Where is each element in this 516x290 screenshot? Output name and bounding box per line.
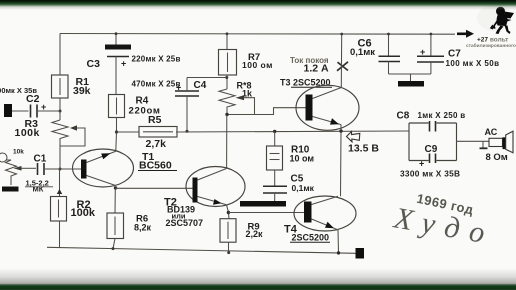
- wire node to R5: [117, 131, 140, 133]
- node C4 on output line: [186, 130, 189, 133]
- svg-text:1.2 А: 1.2 А: [304, 63, 330, 75]
- wire to T4 base: [228, 212, 304, 214]
- wire left chain top: rail corner down to R1: [59, 34, 61, 76]
- capacitor C5: [263, 186, 287, 201]
- wire R4 to emitter node: [115, 118, 118, 152]
- svg-text:2,2к: 2,2к: [246, 229, 264, 239]
- svg-text:АС: АС: [485, 127, 498, 137]
- svg-text:C4: C4: [194, 80, 207, 91]
- wire output node down to T4 collector: [340, 131, 343, 196]
- svg-text:0,1мк: 0,1мк: [292, 183, 315, 193]
- svg-text:C3: C3: [87, 58, 101, 70]
- wire node to R10: [274, 131, 276, 146]
- svg-text:R5: R5: [148, 114, 162, 126]
- svg-text:C1: C1: [34, 154, 47, 165]
- chassis mark: [482, 141, 484, 147]
- wire rail to C3: [115, 34, 117, 45]
- transistor T3: [296, 85, 359, 130]
- svg-text:C9: C9: [425, 144, 438, 155]
- cherub silhouette: [477, 5, 514, 34]
- svg-text:0,1мк: 0,1мк: [350, 47, 375, 58]
- svg-text:8 Ом: 8 Ом: [486, 152, 508, 163]
- ground under C5: [240, 201, 286, 207]
- potentiometer R8: [219, 89, 255, 115]
- wire R6 to rail: [113, 239, 115, 249]
- node T1 collector/R6: [114, 186, 117, 189]
- svg-text:220мк X 25в: 220мк X 25в: [132, 55, 181, 64]
- svg-text:Худо: Худо: [391, 201, 497, 251]
- transistor T2: [186, 167, 245, 207]
- svg-text:100 мк X 50в: 100 мк X 50в: [446, 59, 500, 68]
- resistor R6: [107, 213, 124, 239]
- wire R2 to bottom rail: [59, 221, 61, 247]
- input potentiometer 10k: [0, 149, 36, 186]
- resistor R2: [51, 197, 67, 222]
- resistor R7: [219, 50, 237, 76]
- svg-text:1k: 1k: [242, 89, 253, 99]
- node R7/R8/C4: [226, 75, 228, 89]
- svg-text:100k: 100k: [15, 127, 40, 139]
- capacitor C1: [38, 163, 61, 175]
- resistor R1: [52, 75, 69, 98]
- capacitor C6: [379, 33, 401, 74]
- output terminal black: [356, 248, 365, 259]
- flag 13.5 V: [347, 132, 360, 142]
- power rail +27V top: [60, 33, 455, 36]
- wire R1 to R3: [59, 98, 61, 120]
- wire node down to R6: [114, 188, 116, 213]
- svg-text:2SC5200: 2SC5200: [292, 233, 330, 243]
- node output T3/T4: [339, 129, 342, 132]
- svg-text:+27 вольт: +27 вольт: [477, 37, 508, 44]
- resistor R10: [267, 146, 283, 170]
- resistor R5: [139, 127, 177, 138]
- svg-text:10k: 10k: [13, 149, 24, 156]
- svg-text:39k: 39k: [73, 85, 91, 97]
- node T4 base tap: [227, 211, 230, 214]
- speaker AC: [489, 131, 513, 153]
- transistor T1: [60, 149, 134, 187]
- svg-text:100 ом: 100 ом: [242, 60, 273, 70]
- svg-text:МК: МК: [33, 185, 44, 194]
- svg-text:8,2к: 8,2к: [134, 222, 152, 232]
- wire R8 node down to T2 collector: [226, 115, 228, 169]
- svg-text:13.5 В: 13.5 В: [348, 143, 379, 155]
- ground under input pot: [2, 187, 19, 192]
- svg-text:3300 мк X 35В: 3300 мк X 35В: [400, 169, 460, 179]
- svg-text:100k: 100k: [71, 207, 96, 219]
- input terminal: [4, 104, 12, 117]
- wire R3 to C1 node: [59, 146, 61, 169]
- resistor R4: [109, 95, 125, 118]
- svg-text:стабилизированного: стабилизированного: [466, 42, 516, 49]
- capacitor C2: [12, 102, 60, 118]
- svg-text:470мк X 25в: 470мк X 25в: [132, 80, 181, 89]
- node C2 junction: [59, 110, 62, 113]
- svg-text:C2: C2: [26, 93, 40, 105]
- wire T2 emitter to R9: [227, 205, 230, 219]
- svg-text:1мк X 250 в: 1мк X 250 в: [418, 111, 466, 120]
- svg-text:+: +: [420, 47, 425, 57]
- potentiometer R3: [52, 120, 85, 146]
- wire to ground: [410, 74, 412, 81]
- bottom rail: [47, 247, 356, 253]
- svg-text:+: +: [121, 59, 126, 69]
- node R8 bottom: [225, 113, 228, 116]
- +27V arrow: [457, 30, 474, 38]
- wire R10 to C5: [274, 170, 276, 186]
- transistor T4: [294, 196, 356, 231]
- node C1/base junction: [59, 168, 62, 171]
- node R4/R5/T1: [115, 130, 118, 133]
- X mark: [337, 62, 348, 71]
- svg-text:2SC5707: 2SC5707: [166, 218, 204, 228]
- svg-text:2,7k: 2,7k: [146, 138, 167, 150]
- svg-text:+: +: [419, 159, 424, 169]
- wire T3 emitter to output node: [340, 125, 342, 132]
- wire R9 to rail: [228, 242, 230, 252]
- wire C6/C7 common: [389, 73, 431, 75]
- capacitor C8: [430, 121, 436, 132]
- wire R8 wiper loop to T3 base: [255, 108, 306, 115]
- wire T4 emitter to rail: [337, 230, 340, 253]
- svg-text:C8: C8: [397, 111, 410, 122]
- wire box to speaker: [457, 140, 490, 142]
- wire T3 collector to rail: [340, 34, 342, 88]
- ground under C6/C7: [398, 81, 424, 87]
- wire rail to R7: [226, 34, 228, 50]
- svg-text:BC560: BC560: [139, 160, 172, 172]
- resistor R9: [220, 219, 236, 243]
- node R10: [273, 130, 276, 133]
- wire node to R2: [59, 169, 61, 197]
- svg-text:10 ом: 10 ом: [290, 154, 315, 164]
- capacitor C3: [105, 45, 131, 95]
- C8/C9 loop box: [409, 123, 457, 161]
- wire C4 top to R7/R8 node: [187, 77, 227, 79]
- capacitor C9: [430, 154, 436, 164]
- capacitor C7: [417, 33, 444, 74]
- output line R5 to C8/C9 box: [176, 131, 409, 132]
- capacitor C4: [175, 78, 199, 132]
- wire T1 to T2 base: [116, 187, 193, 189]
